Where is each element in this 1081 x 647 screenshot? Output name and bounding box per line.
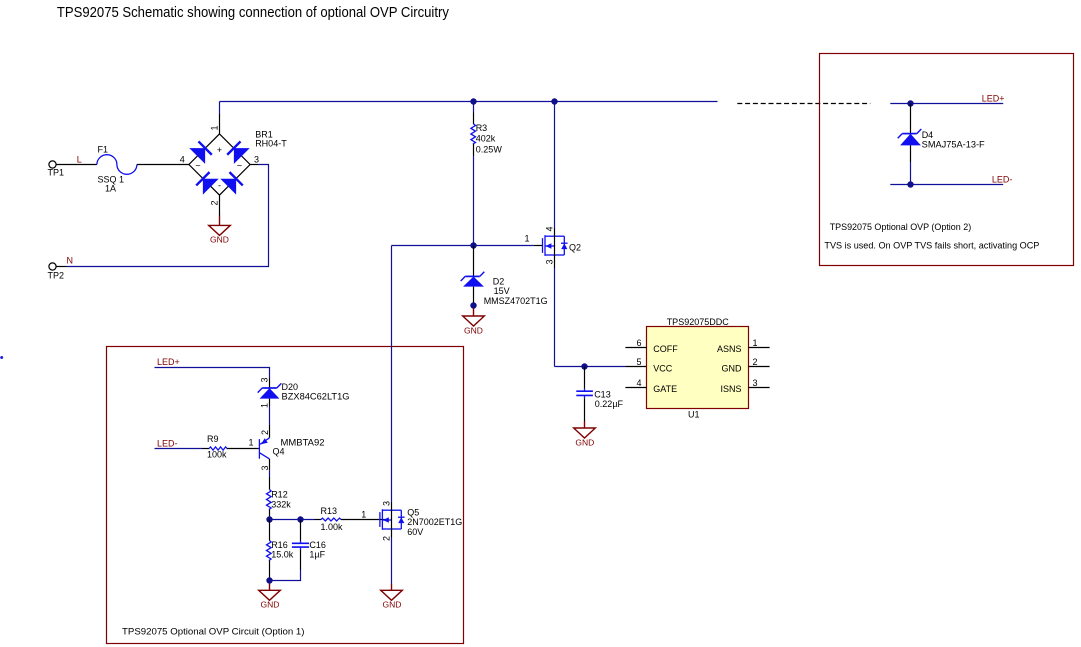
svg-text:R3: R3 bbox=[476, 123, 488, 133]
svg-text:BZX84C62LT1G: BZX84C62LT1G bbox=[282, 391, 350, 401]
svg-text:ASNS: ASNS bbox=[717, 344, 742, 354]
svg-text:1µF: 1µF bbox=[309, 550, 325, 560]
svg-text:3: 3 bbox=[753, 378, 758, 388]
svg-text:0.25W: 0.25W bbox=[476, 144, 503, 154]
svg-text:VCC: VCC bbox=[653, 363, 673, 373]
svg-text:~: ~ bbox=[237, 160, 242, 170]
svg-text:3: 3 bbox=[382, 501, 392, 506]
svg-text:60V: 60V bbox=[407, 527, 423, 537]
svg-text:GND: GND bbox=[382, 600, 401, 610]
svg-text:C16: C16 bbox=[309, 540, 326, 550]
svg-text:R16: R16 bbox=[271, 540, 288, 550]
svg-text:6: 6 bbox=[636, 338, 641, 348]
svg-text:GND: GND bbox=[210, 235, 229, 245]
svg-text:TPS92075DDC: TPS92075DDC bbox=[667, 317, 730, 327]
svg-text:-: - bbox=[218, 181, 221, 191]
svg-text:0.22µF: 0.22µF bbox=[595, 399, 624, 409]
svg-text:GND: GND bbox=[464, 325, 483, 335]
svg-text:GND: GND bbox=[261, 600, 280, 610]
svg-text:R12: R12 bbox=[271, 489, 288, 499]
svg-text:3: 3 bbox=[260, 377, 270, 382]
svg-text:1: 1 bbox=[248, 438, 253, 448]
svg-text:GATE: GATE bbox=[653, 384, 677, 394]
svg-text:TVS is used. On OVP TVS fails: TVS is used. On OVP TVS fails short, act… bbox=[824, 240, 1039, 250]
svg-text:RH04-T: RH04-T bbox=[255, 139, 287, 149]
svg-text:MMSZ4702T1G: MMSZ4702T1G bbox=[484, 296, 548, 306]
svg-text:GND: GND bbox=[575, 437, 594, 447]
svg-text:2: 2 bbox=[382, 536, 392, 541]
svg-text:MMBTA92: MMBTA92 bbox=[281, 438, 325, 448]
svg-text:LED-: LED- bbox=[992, 175, 1013, 185]
svg-text:TPS92075 Schematic showing con: TPS92075 Schematic showing connection of… bbox=[57, 4, 449, 21]
svg-text:D2: D2 bbox=[493, 277, 505, 287]
svg-text:2N7002ET1G: 2N7002ET1G bbox=[407, 517, 462, 527]
svg-text:TPS92075 Optional OVP (Option: TPS92075 Optional OVP (Option 2) bbox=[830, 222, 972, 232]
svg-text:1: 1 bbox=[260, 403, 270, 408]
svg-text:1A: 1A bbox=[105, 184, 116, 194]
svg-text:1: 1 bbox=[753, 338, 758, 348]
svg-text:Q4: Q4 bbox=[273, 447, 285, 457]
svg-text:3: 3 bbox=[254, 154, 259, 164]
svg-text:N: N bbox=[67, 256, 74, 266]
svg-text:332k: 332k bbox=[271, 500, 291, 510]
svg-text:Q2: Q2 bbox=[569, 243, 581, 253]
svg-text:4: 4 bbox=[636, 378, 641, 388]
svg-text:2: 2 bbox=[753, 357, 758, 367]
svg-text:1: 1 bbox=[361, 509, 366, 519]
svg-text:1: 1 bbox=[524, 234, 529, 244]
svg-text:F1: F1 bbox=[98, 145, 109, 155]
svg-text:D20: D20 bbox=[282, 382, 299, 392]
svg-text:TPS92075 Optional OVP Circuit: TPS92075 Optional OVP Circuit (Option 1) bbox=[122, 626, 305, 636]
svg-text:4: 4 bbox=[180, 154, 185, 164]
svg-text:R13: R13 bbox=[321, 506, 338, 516]
svg-text:2: 2 bbox=[260, 430, 270, 435]
svg-text:402k: 402k bbox=[476, 134, 496, 144]
svg-text:100k: 100k bbox=[207, 449, 227, 459]
svg-text:4: 4 bbox=[544, 226, 554, 231]
svg-text:15V: 15V bbox=[494, 286, 510, 296]
svg-text:15.0k: 15.0k bbox=[271, 550, 294, 560]
svg-text:3: 3 bbox=[260, 465, 270, 470]
svg-text:L: L bbox=[77, 155, 82, 165]
svg-text:5: 5 bbox=[636, 357, 641, 367]
svg-text:LED-: LED- bbox=[157, 438, 178, 448]
svg-text:ISNS: ISNS bbox=[720, 384, 741, 394]
svg-text:C13: C13 bbox=[594, 389, 611, 399]
svg-text:Q5: Q5 bbox=[407, 507, 419, 517]
svg-text:TP1: TP1 bbox=[48, 168, 65, 178]
svg-text:1: 1 bbox=[210, 125, 220, 130]
svg-text:COFF: COFF bbox=[653, 344, 678, 354]
svg-text:2: 2 bbox=[210, 200, 220, 205]
svg-text:LED+: LED+ bbox=[157, 357, 180, 367]
svg-text:3: 3 bbox=[544, 259, 554, 264]
svg-text:LED+: LED+ bbox=[982, 93, 1005, 103]
svg-text:~: ~ bbox=[195, 160, 200, 170]
svg-text:+: + bbox=[217, 145, 222, 155]
svg-text:GND: GND bbox=[722, 363, 743, 373]
svg-text:TP2: TP2 bbox=[48, 271, 65, 281]
svg-text:R9: R9 bbox=[207, 434, 219, 444]
svg-text:SMAJ75A-13-F: SMAJ75A-13-F bbox=[922, 139, 986, 149]
svg-text:U1: U1 bbox=[688, 410, 700, 420]
svg-text:1.00k: 1.00k bbox=[321, 522, 344, 532]
